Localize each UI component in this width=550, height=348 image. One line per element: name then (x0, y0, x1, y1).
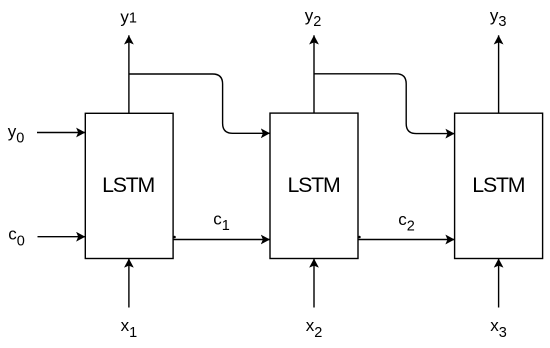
wire x1 input arrow (128, 259, 130, 308)
LSTM cell U3 (455, 113, 543, 258)
label c1 (213, 209, 230, 234)
wire y3 output arrow (498, 35, 500, 113)
wire recurrent y1 to U2 (129, 74, 270, 133)
wire c2 arrow U2 to U3 (358, 236, 455, 240)
label c0 (8, 225, 25, 250)
wire x2 input arrow (313, 259, 315, 308)
label x3 (490, 316, 507, 341)
wire c1 arrow U1 to U2 (173, 236, 270, 240)
wire x3 input arrow (498, 259, 500, 308)
wire y2 output arrow (313, 35, 315, 113)
LSTM cell U2 (270, 113, 358, 258)
label y1 (120, 7, 137, 26)
label x1 (121, 316, 138, 341)
label y3 (490, 6, 507, 30)
svg-text:LSTM: LSTM (102, 173, 154, 197)
label y2 (305, 6, 322, 30)
svg-text:y1: y1 (120, 7, 137, 26)
wire y1 output arrow (128, 35, 130, 113)
label c2 (398, 210, 415, 235)
wire y0 input arrow (37, 132, 85, 134)
LSTM cell U1 (85, 113, 173, 258)
label y0 (8, 122, 25, 147)
wire c0 input arrow (38, 236, 86, 238)
svg-text:LSTM: LSTM (472, 173, 524, 197)
wire recurrent y2 to U3 (314, 74, 455, 134)
label x2 (306, 316, 323, 341)
svg-text:LSTM: LSTM (288, 173, 340, 197)
